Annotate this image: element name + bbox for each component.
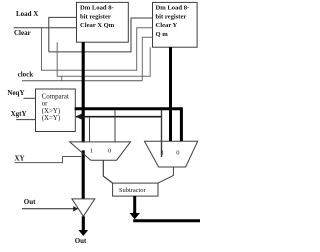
wire right mux output to subtractor xyxy=(158,167,173,183)
subtractor box U4 xyxy=(113,183,158,196)
wire select into right mux xyxy=(161,110,163,157)
wire select into left mux xyxy=(89,117,91,142)
wire register X bottom riser xyxy=(57,42,150,76)
register X box U1 xyxy=(77,2,129,42)
svg-text:Out: Out xyxy=(24,198,36,206)
wire Load to register Y xyxy=(49,18,153,52)
svg-text:1: 1 xyxy=(161,149,164,156)
bus result to right edge xyxy=(133,219,200,222)
svg-text:Clear X Qm: Clear X Qm xyxy=(80,22,115,29)
svg-text:XY: XY xyxy=(15,155,25,163)
wire Clear wrap to register Y xyxy=(42,28,153,71)
bus X register output upper xyxy=(82,42,85,142)
wire clock tick xyxy=(61,76,63,80)
wire XY select xyxy=(15,157,82,163)
svg-text:Clear Y: Clear Y xyxy=(156,22,178,29)
svg-text:Dm Load 8-: Dm Load 8- xyxy=(80,5,114,12)
bus elbow into right mux 0 input xyxy=(180,107,183,141)
mux M1 left xyxy=(70,142,131,160)
wire comparator output to mux selects with arrowhead xyxy=(76,116,162,118)
svg-text:Load X: Load X xyxy=(16,10,38,18)
bus X register output lower xyxy=(82,150,85,199)
wire Load X into register X xyxy=(49,17,77,52)
wire clock to register Y xyxy=(142,37,152,80)
svg-text:Dm Load 8-: Dm Load 8- xyxy=(156,5,190,12)
comparator box U3 xyxy=(36,89,76,132)
svg-text:NeqY: NeqY xyxy=(7,89,24,97)
buffer tri-state xyxy=(72,199,95,216)
wire NeqY xyxy=(24,97,36,99)
svg-text:Subtractor: Subtractor xyxy=(119,187,146,194)
mux M2 right xyxy=(145,141,198,167)
bus Y register output xyxy=(169,47,172,141)
svg-text:Comparat: Comparat xyxy=(42,94,69,101)
svg-text:or: or xyxy=(42,101,48,108)
svg-text:bit register: bit register xyxy=(80,13,111,20)
wire Clear into register X xyxy=(14,27,77,29)
register Y box U2 xyxy=(153,2,198,47)
svg-text:1: 1 xyxy=(90,148,93,155)
wire clock line xyxy=(22,80,142,82)
bus buffer output with down arrow xyxy=(82,216,85,231)
wire XgtY xyxy=(16,119,35,121)
bus Y feed to comparator xyxy=(75,107,182,110)
svg-text:clock: clock xyxy=(18,71,34,79)
svg-text:(X>Y): (X>Y) xyxy=(42,108,60,115)
svg-text:Q m: Q m xyxy=(156,31,169,38)
wire Y data into left mux 0 input xyxy=(114,110,116,142)
wire Out enable with arrowhead xyxy=(22,208,75,210)
svg-text:(X=Y): (X=Y) xyxy=(42,115,60,122)
wire left mux output to subtractor xyxy=(103,160,112,183)
svg-text:bit register: bit register xyxy=(156,13,187,20)
bus subtractor output with down arrow xyxy=(133,196,136,214)
svg-text:Clear: Clear xyxy=(14,29,31,37)
svg-text:Out: Out xyxy=(75,237,87,245)
svg-text:XgtY: XgtY xyxy=(11,110,27,118)
